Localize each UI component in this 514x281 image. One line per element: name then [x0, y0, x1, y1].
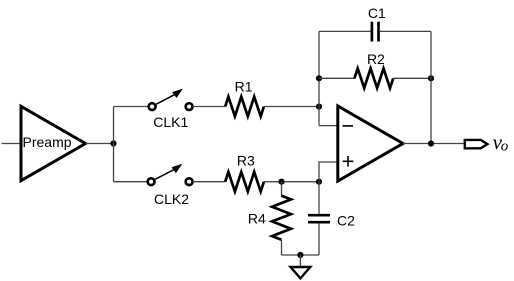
wire: R2 left lead — [319, 77, 355, 79]
resistor R4 — [248, 196, 291, 240]
node A: split junction — [110, 140, 116, 146]
wire: R4 bottom lead — [281, 240, 283, 255]
wire: to op-amp inverting input — [319, 125, 337, 127]
node: output junction — [428, 140, 434, 146]
node: ground junction — [297, 252, 303, 258]
svg-text:R1: R1 — [235, 79, 253, 95]
wire: R3 to non-inverting node — [264, 181, 319, 183]
wire: R2 right lead — [393, 77, 431, 79]
node: R4 tap junction — [278, 179, 284, 185]
resistor R1 — [225, 79, 264, 117]
wire: left feedback vertical — [318, 31, 320, 125]
wire: switch CLK1 to R1 — [193, 106, 226, 108]
wire: right feedback vertical — [430, 31, 432, 143]
wire: preamp output to split node — [86, 143, 114, 145]
wire: input line to preamp — [2, 143, 21, 145]
wire: op-amp output — [403, 143, 464, 145]
wire: C1 left lead — [319, 30, 371, 32]
wire: bottom joining line — [282, 254, 320, 256]
svg-text:R4: R4 — [248, 210, 266, 226]
wire: R4 top lead — [281, 182, 283, 196]
svg-text:C2: C2 — [337, 212, 355, 228]
op-amp U1 (Preamp) — [21, 106, 86, 180]
ground — [291, 255, 311, 278]
capacitor C1 — [368, 5, 386, 42]
node: R2 right junction — [428, 75, 434, 81]
svg-text:Preamp: Preamp — [23, 134, 72, 150]
node: inverting input junction — [316, 104, 322, 110]
wire: C2 top lead — [318, 182, 320, 214]
wire: switch CLK2 to R3 — [193, 181, 226, 183]
wire: C2 bottom lead — [318, 224, 320, 255]
output port flag — [465, 140, 488, 148]
switch CLK1 — [149, 89, 193, 130]
svg-text:C1: C1 — [368, 5, 386, 21]
node: non-inverting input junction — [316, 179, 322, 185]
wire: up to op-amp non-inverting input — [319, 162, 337, 182]
node: R2 left junction — [316, 75, 322, 81]
svg-text:o: o — [501, 138, 509, 154]
capacitor C2 — [308, 212, 355, 228]
svg-text:CLK1: CLK1 — [153, 114, 188, 130]
wire: C1 right lead — [380, 30, 431, 32]
svg-text:CLK2: CLK2 — [154, 191, 189, 207]
resistor R3 — [225, 153, 264, 192]
op-amp U2 — [338, 106, 403, 181]
wire: bottom branch to switch CLK2 — [114, 181, 147, 183]
svg-text:R2: R2 — [367, 51, 385, 67]
svg-text:R3: R3 — [237, 153, 255, 169]
wire: vertical split branch — [113, 107, 115, 182]
wire: R1 to inverting node — [264, 106, 319, 108]
label vo — [493, 130, 509, 155]
wire: top branch to switch CLK1 — [114, 106, 148, 108]
switch CLK2 — [148, 164, 193, 207]
resistor R2 — [355, 51, 394, 88]
